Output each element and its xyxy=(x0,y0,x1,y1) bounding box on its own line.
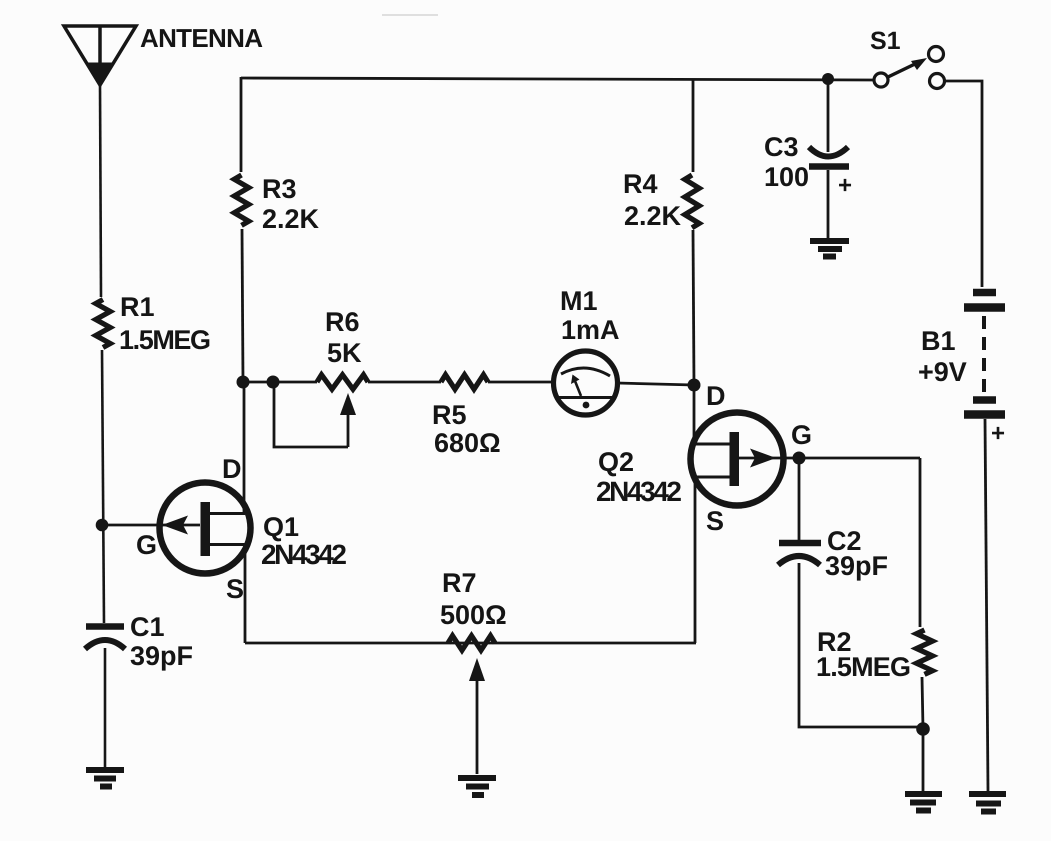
svg-text:G: G xyxy=(136,530,157,560)
wire Q1 drain up xyxy=(243,382,246,514)
svg-text:M1: M1 xyxy=(560,286,598,316)
wire C3 drop xyxy=(827,79,830,152)
transistor Q1 xyxy=(102,483,251,574)
svg-text:C1: C1 xyxy=(130,612,165,642)
svg-text:D: D xyxy=(222,454,242,484)
svg-text:1.5MEG: 1.5MEG xyxy=(119,325,211,355)
wire R3 to node xyxy=(242,229,243,382)
node (273,382) xyxy=(267,376,280,389)
svg-text:R1: R1 xyxy=(120,292,155,322)
wire gate down to C2 xyxy=(798,458,801,540)
meter M1 xyxy=(554,351,618,415)
wire R4 to node xyxy=(693,230,694,385)
wire mid rail segment 2 xyxy=(368,381,441,384)
svg-text:Q1: Q1 xyxy=(263,512,299,542)
transistor Q2 xyxy=(691,413,921,506)
svg-text:ANTENNA: ANTENNA xyxy=(140,23,263,53)
svg-text:5K: 5K xyxy=(327,338,362,368)
svg-text:R7: R7 xyxy=(442,568,477,598)
wire C3 to ground xyxy=(827,170,830,238)
wire antenna lead down xyxy=(100,85,101,297)
wire R6 wiper to node xyxy=(274,385,348,447)
svg-text:1mA: 1mA xyxy=(561,315,620,345)
ground (antenna line) xyxy=(86,770,124,787)
wire node to ground xyxy=(922,729,925,791)
wire bottom rail xyxy=(245,642,696,645)
R7 wiper arrow xyxy=(469,658,485,774)
svg-text:2N4342: 2N4342 xyxy=(261,539,347,570)
node (799,458) gate junction xyxy=(793,452,806,465)
capacitor C1 xyxy=(85,627,125,650)
svg-text:S: S xyxy=(706,506,724,536)
node (243,382) xyxy=(237,376,250,389)
wire meter to node xyxy=(617,383,694,385)
svg-text:+: + xyxy=(991,420,1005,447)
wire C2 to bottom corner xyxy=(799,563,923,727)
svg-text:500Ω: 500Ω xyxy=(440,600,507,630)
svg-text:R6: R6 xyxy=(325,307,360,337)
svg-text:S1: S1 xyxy=(870,27,901,55)
capacitor C3 xyxy=(809,147,849,167)
svg-text:Q2: Q2 xyxy=(598,447,634,477)
svg-text:+9V: +9V xyxy=(918,357,967,387)
wire gate right and down to R2 xyxy=(919,458,922,627)
resistor R3 xyxy=(234,175,249,225)
svg-text:39pF: 39pF xyxy=(130,641,193,671)
ground (C3) xyxy=(810,241,849,257)
wire top rail xyxy=(241,78,873,80)
resistor R1 xyxy=(96,300,111,348)
svg-text:S: S xyxy=(226,574,244,604)
wire Q2 drain up xyxy=(693,385,696,444)
svg-text:2N4342: 2N4342 xyxy=(596,476,682,507)
resistor R6 (pot body) xyxy=(317,375,368,390)
ground (R2/C2) xyxy=(905,794,942,811)
resistor R4 xyxy=(685,175,700,228)
svg-text:2.2K: 2.2K xyxy=(624,201,682,231)
node A (gate Q1 junction) xyxy=(96,519,109,532)
svg-text:B1: B1 xyxy=(921,326,956,356)
svg-text:C3: C3 xyxy=(764,132,799,162)
svg-text:100: 100 xyxy=(764,162,809,192)
R6 wiper arrow xyxy=(340,393,356,447)
wire battery to ground xyxy=(985,419,988,791)
svg-text:+: + xyxy=(838,172,852,199)
svg-text:D: D xyxy=(706,381,726,411)
svg-text:680Ω: 680Ω xyxy=(434,428,501,458)
antenna xyxy=(64,26,136,87)
wire mid rail segment 1 xyxy=(243,381,317,384)
svg-text:1.5MEG: 1.5MEG xyxy=(816,652,911,682)
wire R4 column top xyxy=(692,79,695,172)
svg-text:39pF: 39pF xyxy=(825,551,888,581)
node (923,729) xyxy=(916,722,930,736)
resistor R2 xyxy=(917,630,933,674)
svg-text:R3: R3 xyxy=(262,174,297,204)
switch S1 xyxy=(874,47,945,89)
svg-text:R4: R4 xyxy=(623,169,658,199)
ground (battery) xyxy=(969,794,1006,812)
wire S1 to battery corner xyxy=(945,81,982,287)
wire R5 to meter xyxy=(488,381,554,384)
wire Q1 source down xyxy=(244,544,247,643)
svg-text:2.2K: 2.2K xyxy=(262,204,320,234)
node (828,79) C3 tap xyxy=(822,73,834,85)
battery B1 xyxy=(964,293,1005,415)
capacitor C2 xyxy=(778,543,821,565)
svg-text:R5: R5 xyxy=(432,400,467,430)
resistor R5 xyxy=(441,375,488,390)
node (694,385) xyxy=(688,379,701,392)
ground (R7) xyxy=(458,778,496,795)
resistor R7 (pot body) xyxy=(448,636,495,651)
wire R1 to C1 xyxy=(102,350,104,623)
wire R2 to node xyxy=(922,677,923,729)
wire Q2 source down xyxy=(694,477,697,643)
svg-text:G: G xyxy=(791,420,812,450)
wire C1 to ground xyxy=(104,648,107,767)
wire R3 column top xyxy=(240,77,243,172)
